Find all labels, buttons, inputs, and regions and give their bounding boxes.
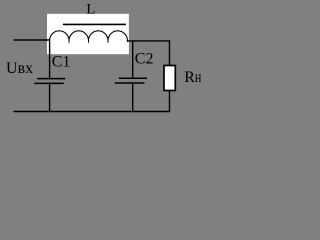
svg-text:Uвх: Uвх <box>6 60 33 77</box>
capacitor C2 bottom plate <box>115 82 145 84</box>
winding cusp tick 2 <box>88 40 90 43</box>
capacitor C1 bottom plate <box>34 82 63 84</box>
wire C1 branch upper <box>49 40 51 78</box>
svg-text:R: R <box>184 69 195 86</box>
wire Rн branch lower <box>169 91 171 112</box>
winding end tick <box>126 40 128 42</box>
resistor Rн body <box>164 66 175 91</box>
winding cusp tick 1 <box>68 40 70 43</box>
wire C2 branch upper <box>132 41 134 78</box>
wire C1 branch lower <box>49 84 51 112</box>
wire top right <box>127 40 170 42</box>
svg-text:н: н <box>195 69 202 86</box>
wire Rн branch upper <box>169 41 171 66</box>
inductor white background box <box>47 14 129 54</box>
svg-text:C2: C2 <box>135 50 154 67</box>
winding cusp tick 3 <box>107 40 109 43</box>
capacitor C2 top plate <box>119 77 147 79</box>
inductor core line <box>63 23 126 25</box>
wire input left <box>14 39 51 41</box>
capacitor C1 top plate <box>37 78 65 80</box>
svg-text:C1: C1 <box>52 54 71 71</box>
inductor L winding <box>50 31 128 41</box>
wire C2 branch lower <box>132 84 134 112</box>
svg-text:L: L <box>86 2 95 18</box>
wire bottom <box>14 111 171 113</box>
